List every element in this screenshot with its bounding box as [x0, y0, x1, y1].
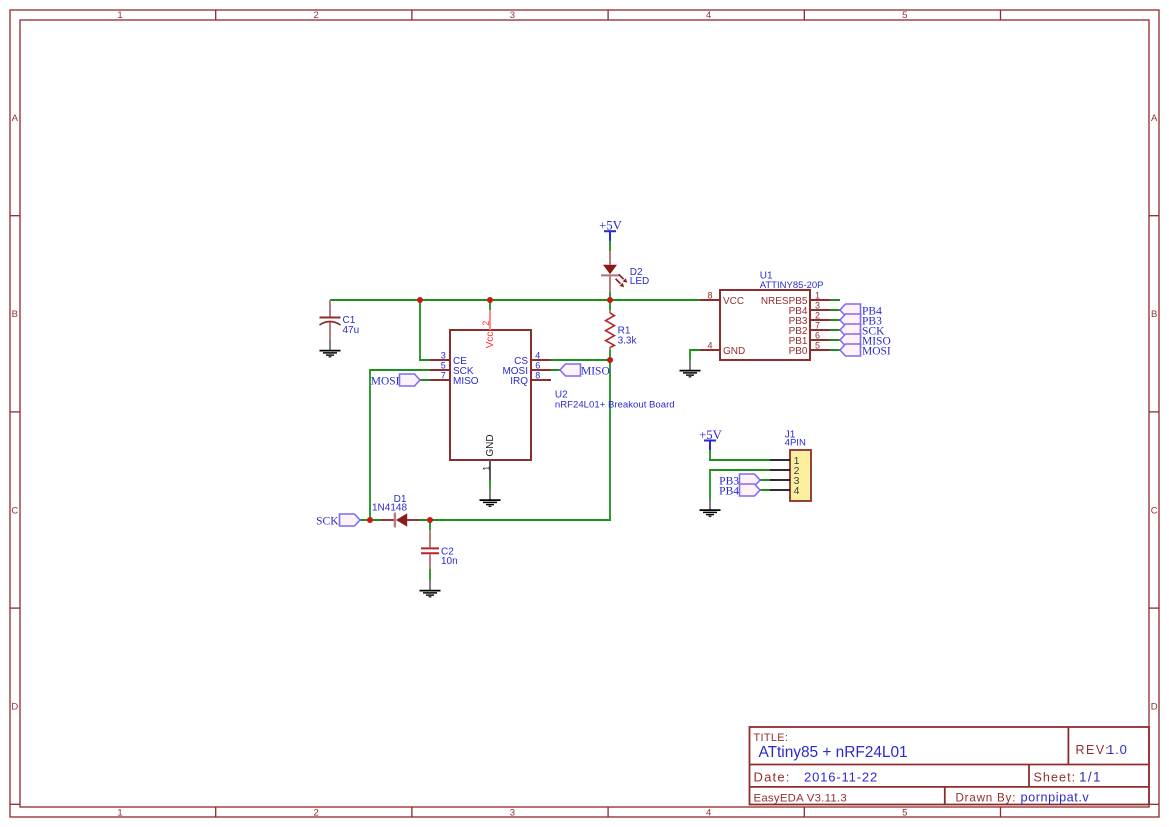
svg-text:LED: LED: [630, 276, 649, 287]
svg-text:GND: GND: [723, 346, 745, 357]
svg-text:6: 6: [535, 361, 540, 371]
svg-text:ATTINY85-20P: ATTINY85-20P: [760, 280, 824, 291]
svg-text:ATtiny85 + nRF24L01: ATtiny85 + nRF24L01: [759, 744, 908, 761]
svg-text:2: 2: [481, 321, 491, 326]
svg-text:8: 8: [535, 371, 540, 381]
svg-text:MOSI: MOSI: [862, 345, 891, 357]
svg-text:REV:: REV:: [1076, 743, 1111, 757]
svg-text:1: 1: [117, 807, 122, 818]
svg-text:3: 3: [441, 351, 446, 361]
svg-text:2: 2: [314, 807, 319, 818]
svg-text:5: 5: [815, 341, 820, 351]
svg-text:VCC: VCC: [723, 296, 744, 307]
svg-text:3.3k: 3.3k: [618, 335, 638, 346]
svg-text:C: C: [11, 505, 18, 516]
svg-text:5: 5: [902, 807, 907, 818]
svg-text:PB4: PB4: [719, 486, 739, 498]
svg-text:2: 2: [314, 10, 319, 21]
svg-text:7: 7: [441, 371, 446, 381]
svg-text:5: 5: [441, 361, 446, 371]
svg-text:D: D: [11, 702, 18, 713]
svg-text:1.0: 1.0: [1107, 742, 1128, 757]
svg-text:4: 4: [535, 351, 540, 361]
svg-text:+5V: +5V: [599, 219, 623, 233]
svg-text:1: 1: [482, 466, 492, 471]
svg-text:4PIN: 4PIN: [785, 438, 806, 449]
svg-text:3: 3: [510, 10, 515, 21]
svg-text:Sheet:: Sheet:: [1034, 771, 1077, 785]
svg-text:nRF24L01+ Breakout Board: nRF24L01+ Breakout Board: [555, 399, 675, 410]
svg-text:A: A: [12, 113, 19, 124]
svg-text:4: 4: [707, 341, 712, 351]
svg-text:8: 8: [707, 291, 712, 301]
svg-text:SCK: SCK: [316, 516, 339, 528]
svg-text:IRQ: IRQ: [510, 376, 528, 387]
svg-text:2016-11-22: 2016-11-22: [804, 770, 878, 785]
svg-text:7: 7: [815, 321, 820, 331]
svg-text:1: 1: [117, 10, 122, 21]
svg-text:1N4148: 1N4148: [372, 502, 407, 513]
svg-text:MISO: MISO: [453, 376, 479, 387]
svg-text:47u: 47u: [343, 325, 360, 336]
svg-text:TITLE:: TITLE:: [754, 732, 789, 744]
svg-text:PB0: PB0: [789, 346, 808, 357]
svg-text:pornpipat.v: pornpipat.v: [1021, 790, 1090, 804]
svg-text:4: 4: [794, 485, 800, 497]
svg-text:Date:: Date:: [754, 770, 791, 785]
svg-text:EasyEDA V3.11.3: EasyEDA V3.11.3: [754, 792, 847, 804]
svg-text:B: B: [12, 309, 18, 320]
svg-text:4: 4: [706, 807, 711, 818]
svg-text:3: 3: [815, 301, 820, 311]
svg-text:D: D: [1151, 702, 1158, 713]
svg-text:+5V: +5V: [699, 428, 723, 442]
svg-text:2: 2: [815, 311, 820, 321]
svg-text:10n: 10n: [441, 556, 458, 567]
svg-text:Vcc: Vcc: [485, 332, 496, 349]
svg-text:6: 6: [815, 331, 820, 341]
svg-text:5: 5: [902, 10, 907, 21]
svg-text:C: C: [1151, 505, 1158, 516]
svg-text:MOSI: MOSI: [371, 376, 400, 388]
svg-text:GND: GND: [485, 434, 496, 456]
svg-text:A: A: [1151, 113, 1158, 124]
svg-text:B: B: [1151, 309, 1157, 320]
svg-text:4: 4: [706, 10, 711, 21]
svg-text:1: 1: [815, 291, 820, 301]
svg-text:1/1: 1/1: [1079, 770, 1102, 785]
svg-text:MISO: MISO: [581, 366, 610, 378]
svg-text:3: 3: [510, 807, 515, 818]
svg-text:Drawn By:: Drawn By:: [956, 791, 1017, 804]
